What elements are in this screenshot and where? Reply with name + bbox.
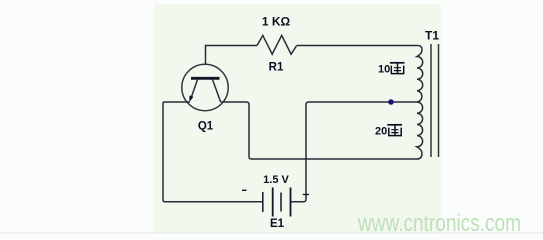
battery E1 plate 1 short [262,192,264,212]
svg-text:1.5 V: 1.5 V [263,174,289,186]
transformer T1 core line 1 [430,44,432,157]
node tap junction dot [388,99,394,105]
svg-text:www.cntronics.com: www.cntronics.com [357,210,521,237]
wire base-to-resistor top [206,46,258,65]
wire emitter to battery minus [163,102,263,202]
svg-text:E1: E1 [270,218,285,230]
transformer T1 winding [417,46,423,160]
transistor Q1 collector [213,80,221,102]
svg-text:T1: T1 [425,29,439,43]
transistor Q1 emitter [190,80,197,101]
svg-text:20: 20 [375,126,387,138]
wire battery plus to tap [291,102,419,202]
battery E1 plate 2 long [272,188,274,217]
battery E1 plate 4 long [290,188,292,217]
wire resistor-to-transformer top [297,45,418,47]
label plus sign [303,194,309,196]
transistor Q1 base bar [191,77,220,80]
label minus sign [242,189,247,191]
label 10匝 [378,63,405,76]
label 20匝 [375,125,402,138]
transformer T1 core line 2 [438,44,440,157]
wire emitter stub [163,101,190,103]
svg-text:R1: R1 [269,62,284,74]
svg-text:10: 10 [378,64,390,76]
wire collector stub [221,102,418,159]
svg-text:1 KΩ: 1 KΩ [262,15,291,29]
svg-text:Q1: Q1 [198,121,214,133]
transistor Q1 circle [182,64,228,110]
resistor R1 [257,35,297,54]
transistor Q1 emitter arrow [189,95,193,101]
battery E1 plate 3 short [280,193,282,212]
